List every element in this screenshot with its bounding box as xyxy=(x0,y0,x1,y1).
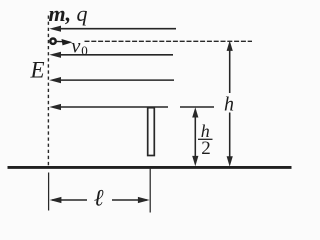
field line 1 xyxy=(49,26,176,32)
ground line xyxy=(8,166,292,169)
h/2 extension line xyxy=(180,106,214,108)
l dimension left tick xyxy=(48,173,50,211)
particle circle xyxy=(50,39,55,44)
barrier rectangle xyxy=(148,108,155,156)
l dimension arrows xyxy=(50,197,150,203)
h/2 dimension arrow xyxy=(192,107,198,166)
field line 4 xyxy=(49,104,168,110)
label h/2 fraction xyxy=(198,121,213,159)
vertical dashed line xyxy=(47,16,49,167)
field line 2 xyxy=(49,52,173,58)
svg-text:m,: m, xyxy=(49,1,72,26)
h dimension arrow xyxy=(227,41,233,167)
l dimension right tick xyxy=(149,168,151,213)
svg-text:ℓ: ℓ xyxy=(94,186,104,212)
v0 arrow xyxy=(57,39,73,45)
label v0 xyxy=(71,36,88,59)
svg-text:v: v xyxy=(71,36,81,58)
svg-text:E: E xyxy=(30,58,45,83)
svg-text:0: 0 xyxy=(81,43,88,58)
horizontal dashed trajectory line xyxy=(85,40,253,42)
svg-text:2: 2 xyxy=(201,138,211,159)
label m, q xyxy=(49,1,88,26)
field line 3 xyxy=(49,77,174,83)
svg-text:q: q xyxy=(77,1,88,26)
svg-text:h: h xyxy=(224,94,234,116)
